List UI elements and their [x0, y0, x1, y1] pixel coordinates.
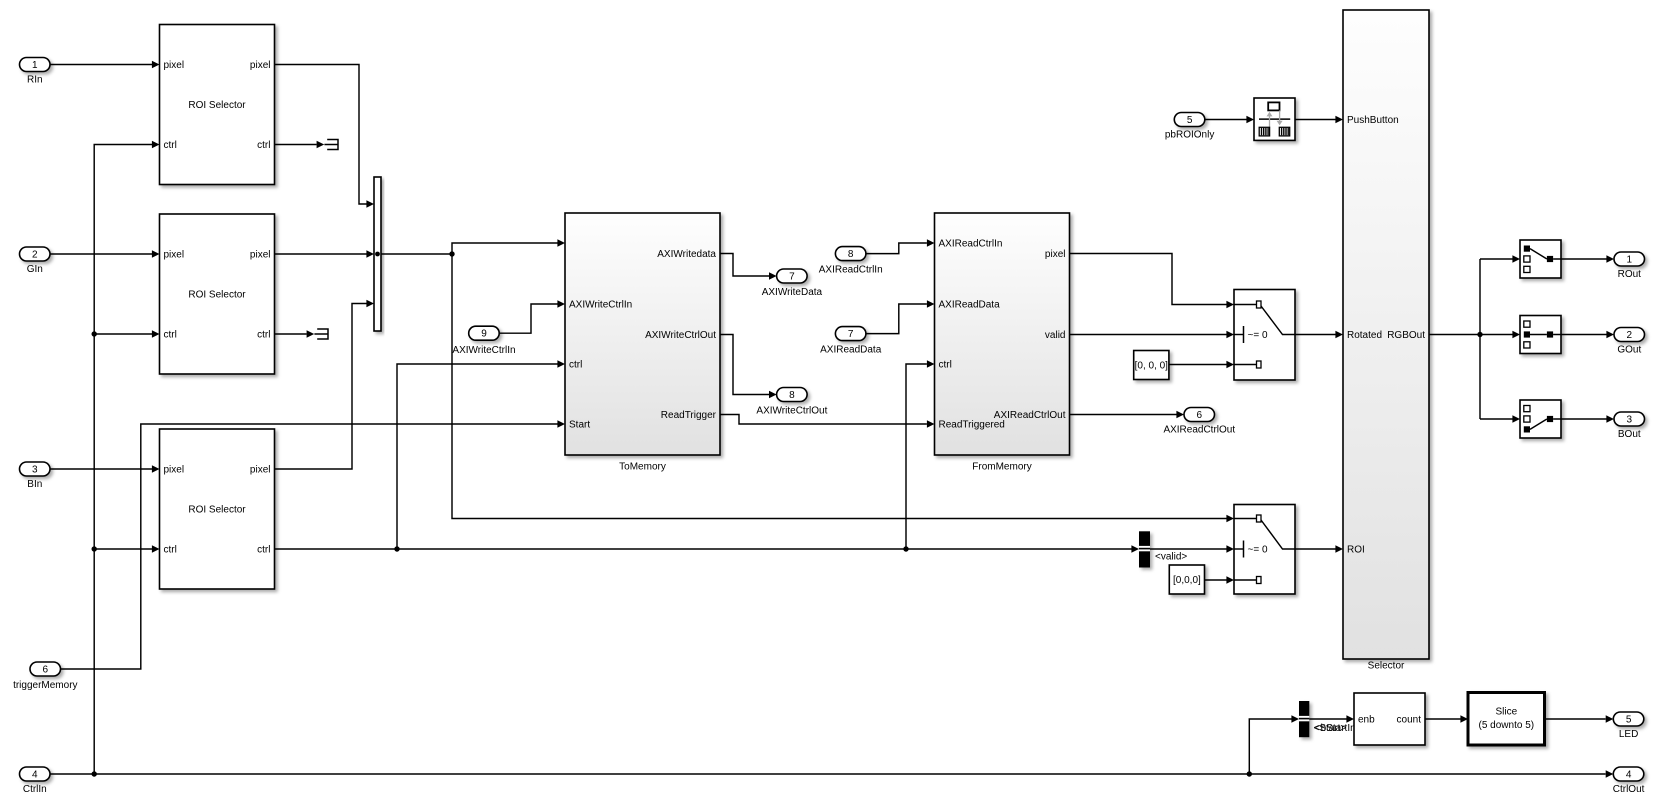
svg-text:7: 7 [789, 272, 795, 283]
wire to selector G [1480, 331, 1520, 339]
wire junction down to switch2 input 1 [452, 254, 1234, 522]
svg-text:9: 9 [481, 329, 487, 340]
outport 3 BOut [1614, 412, 1645, 440]
svg-text:Rotated: Rotated [1347, 330, 1382, 341]
bus selector valid [1139, 531, 1187, 567]
svg-text:pixel: pixel [250, 250, 271, 261]
selector block R [1520, 240, 1561, 278]
switch 2 [1234, 505, 1295, 595]
svg-text:ctrl: ctrl [939, 360, 952, 371]
wire Selector RGBOut to RGB split junction [1429, 259, 1483, 419]
mux vector concatenate [374, 177, 381, 331]
outport 2 GOut [1614, 328, 1645, 356]
svg-text:ctrl: ctrl [164, 545, 177, 556]
wire FromMemory valid to switch1 ctrl [1070, 331, 1235, 339]
svg-text:pixel: pixel [1045, 249, 1066, 260]
bus selector Start [1299, 701, 1362, 737]
wire AXIWritedata to outport 7 [720, 254, 777, 280]
wire to selector B [1480, 415, 1520, 423]
terminator 2 [314, 328, 328, 339]
svg-text:AXIWriteCtrlOut: AXIWriteCtrlOut [756, 406, 827, 417]
svg-text:AXIReadCtrlIn: AXIReadCtrlIn [939, 239, 1003, 250]
wire pushbutton block to Selector PushButton [1295, 116, 1343, 124]
svg-text:[0, 0, 0]: [0, 0, 0] [1135, 361, 1169, 372]
terminator 1 [324, 139, 338, 150]
svg-text:Slice: Slice [1495, 707, 1517, 718]
svg-text:7: 7 [848, 329, 854, 340]
svg-text:ctrl: ctrl [257, 545, 270, 556]
wire mux out to junction [381, 251, 455, 256]
svg-text:AXIReadCtrlIn: AXIReadCtrlIn [819, 265, 883, 276]
svg-text:ReadTrigger: ReadTrigger [661, 410, 717, 421]
wire constant1 to switch1 input 3 [1169, 361, 1234, 369]
wire selector B to BOut [1561, 415, 1614, 423]
outport 6 AXIReadCtrlOut [1163, 408, 1235, 436]
block Selector subsystem [1343, 10, 1429, 672]
svg-text:ToMemory: ToMemory [619, 462, 666, 473]
svg-text:5: 5 [1187, 115, 1193, 126]
svg-text:2: 2 [32, 250, 38, 261]
wire junction up to ToMemory pixel input [452, 239, 565, 254]
svg-text:BIn: BIn [27, 479, 42, 490]
block ROI Selector 2 [160, 214, 275, 374]
wire BIn to ROI3 pixel [50, 465, 160, 473]
svg-text:3: 3 [1627, 415, 1633, 426]
svg-text:5: 5 [1626, 715, 1632, 726]
svg-text:count: count [1397, 715, 1422, 726]
svg-text:AXIReadData: AXIReadData [820, 345, 882, 356]
svg-text:pbROIOnly: pbROIOnly [1165, 130, 1214, 141]
svg-text:1: 1 [1627, 255, 1633, 266]
outport 5 LED [1613, 712, 1644, 740]
svg-text:RIn: RIn [27, 75, 43, 86]
svg-text:pixel: pixel [164, 465, 185, 476]
svg-text:4: 4 [1626, 770, 1632, 781]
wire AXIWriteCtrlOut to outport 8 [720, 335, 777, 399]
block ROI Selector 3 [160, 429, 275, 589]
svg-text:ROut: ROut [1618, 269, 1642, 280]
wire constant2 to switch2 input 3 [1205, 576, 1235, 584]
junction and wire ctrl to FromMemory ctrl [903, 360, 934, 552]
wire AXIReadCtrlOut to outport 6 [1070, 411, 1185, 419]
svg-text:AXIReadCtrlOut: AXIReadCtrlOut [994, 410, 1066, 421]
svg-text:ReadTriggered: ReadTriggered [939, 420, 1005, 431]
selector block G [1520, 316, 1561, 354]
svg-text:<valid>: <valid> [1155, 552, 1187, 563]
svg-text:GOut: GOut [1617, 345, 1641, 356]
svg-text:2: 2 [1627, 330, 1633, 341]
svg-text:CtrlIn: CtrlIn [23, 784, 47, 795]
svg-text:ctrl: ctrl [164, 140, 177, 151]
outport 1 ROut [1614, 252, 1645, 280]
svg-text:ctrl: ctrl [257, 140, 270, 151]
svg-text:PushButton: PushButton [1347, 115, 1399, 126]
svg-text:ctrl: ctrl [164, 330, 177, 341]
svg-text:AXIWritedata: AXIWritedata [657, 249, 716, 260]
svg-text:AXIWriteCtrlIn: AXIWriteCtrlIn [569, 300, 632, 311]
svg-text:pixel: pixel [250, 60, 271, 71]
inport 2 GIn [20, 247, 51, 275]
wire CtrlIn bus to CtrlOut [50, 770, 1613, 778]
wire switch2 to Selector ROI [1295, 545, 1343, 553]
svg-text:AXIReadCtrlOut: AXIReadCtrlOut [1163, 425, 1235, 436]
wire ROI1 pixel out to mux input 1 [275, 65, 375, 208]
wire pbROIOnly to pushbutton block [1205, 116, 1254, 124]
outport 8 AXIWriteCtrlOut [756, 388, 827, 417]
svg-text:(5 downto 5): (5 downto 5) [1479, 720, 1535, 731]
svg-text:valid: valid [1045, 330, 1066, 341]
wire bus selector Start to counter enb [1309, 715, 1354, 723]
svg-text:ROI: ROI [1347, 545, 1365, 556]
wire ROI3 pixel out to mux input 3 [275, 300, 375, 469]
svg-text:3: 3 [32, 465, 38, 476]
inport 9 AXIWriteCtrlIn [452, 326, 515, 356]
switch 1 [1234, 290, 1295, 381]
svg-text:~= 0: ~= 0 [1248, 330, 1268, 341]
svg-text:AXIReadData: AXIReadData [939, 300, 1001, 311]
block FromMemory [935, 213, 1070, 473]
svg-text:ctrl: ctrl [257, 330, 270, 341]
svg-text:triggerMemory: triggerMemory [13, 680, 77, 691]
wire counter to slice [1425, 715, 1468, 723]
svg-text:6: 6 [1197, 410, 1203, 421]
inport 5 pbROIOnly [1165, 113, 1214, 141]
constant [0, 0, 0] [1134, 351, 1169, 380]
svg-text:AXIWriteCtrlOut: AXIWriteCtrlOut [645, 330, 716, 341]
wire triggerMemory to ToMemory Start [61, 420, 566, 669]
inport 4 CtrlIn [20, 767, 51, 795]
svg-text:Selector: Selector [1368, 661, 1405, 672]
inport 8 AXIReadCtrlIn [819, 247, 883, 276]
wire FromMemory pixel to switch1 input 1 [1070, 254, 1235, 309]
wire ROI2 ctrl out to terminator 2 [275, 330, 315, 338]
svg-text:ROI Selector: ROI Selector [188, 290, 246, 301]
svg-text:6: 6 [43, 665, 49, 676]
wire ctrl trunk from CtrlIn up to ROI1 ctrl [94, 141, 159, 774]
wire port8 to FromMemory AXIReadCtrlIn [866, 239, 935, 253]
wire selector G to GOut [1561, 331, 1614, 339]
svg-text:ctrl: ctrl [569, 360, 582, 371]
junction and wire ctrl to ToMemory ctrl [394, 360, 565, 552]
block ROI Selector 1 [160, 25, 275, 185]
wire selector R to ROut [1561, 255, 1614, 263]
wire port7 to FromMemory AXIReadData [866, 300, 935, 333]
inport 7 AXIReadData [820, 327, 882, 356]
svg-text:ROI Selector: ROI Selector [188, 100, 246, 111]
constant [0,0,0] [1169, 565, 1204, 594]
wire slice to LED [1545, 715, 1614, 723]
svg-text:pixel: pixel [250, 465, 271, 476]
inport 1 RIn [20, 58, 51, 86]
wire switch1 to Selector Rotated [1295, 331, 1343, 339]
wire ReadTrigger to FromMemory ReadTriggered [720, 415, 935, 428]
svg-text:BOut: BOut [1618, 429, 1641, 440]
wire RIn to ROI1 pixel [50, 61, 160, 69]
wire to selector R [1480, 255, 1520, 263]
block ToMemory [565, 213, 720, 473]
selector block B [1520, 400, 1561, 438]
wire ctrl branch to ROI2 ctrl [92, 330, 160, 338]
wire ROI2 pixel out to mux input 2 [275, 250, 375, 258]
svg-text:8: 8 [789, 390, 795, 401]
svg-text:AXIWriteData: AXIWriteData [762, 287, 823, 298]
svg-text:AXIWriteCtrlIn: AXIWriteCtrlIn [452, 345, 515, 356]
svg-text:[0,0,0]: [0,0,0] [1173, 575, 1201, 586]
svg-text:Start: Start [569, 420, 590, 431]
block counter [1354, 693, 1425, 745]
svg-text:LED: LED [1619, 729, 1638, 740]
svg-text:RGBOut: RGBOut [1387, 330, 1425, 341]
wire ROI3 ctrl out bus to bus selector valid [275, 545, 1140, 553]
wire CtrlIn branch to bus selector Start [1249, 715, 1299, 774]
inport 3 BIn [20, 462, 51, 490]
svg-text:FromMemory: FromMemory [972, 462, 1031, 473]
svg-text:4: 4 [32, 770, 38, 781]
block pushbutton interface [1254, 98, 1295, 140]
svg-text:1: 1 [32, 60, 38, 71]
outport 4 CtrlOut [1613, 767, 1645, 795]
wire bus selector valid to switch2 ctrl [1150, 545, 1234, 553]
wire port9 to ToMemory AXIWriteCtrlIn [499, 300, 565, 333]
svg-text:~= 0: ~= 0 [1248, 545, 1268, 556]
wire ctrl branch to ROI3 ctrl [92, 545, 160, 553]
svg-text:ROI Selector: ROI Selector [188, 505, 246, 516]
outport 7 AXIWriteData [762, 269, 823, 298]
svg-text:CtrlOut: CtrlOut [1613, 784, 1645, 795]
svg-text:pixel: pixel [164, 60, 185, 71]
svg-text:8: 8 [848, 249, 854, 260]
svg-text:pixel: pixel [164, 250, 185, 261]
svg-text:GIn: GIn [27, 264, 43, 275]
inport 6 triggerMemory [13, 662, 77, 691]
wire ROI1 ctrl out to terminator 1 [275, 141, 325, 149]
wire GIn to ROI2 pixel [50, 250, 160, 258]
block Slice [1468, 693, 1545, 746]
svg-text:enb: enb [1358, 715, 1375, 726]
